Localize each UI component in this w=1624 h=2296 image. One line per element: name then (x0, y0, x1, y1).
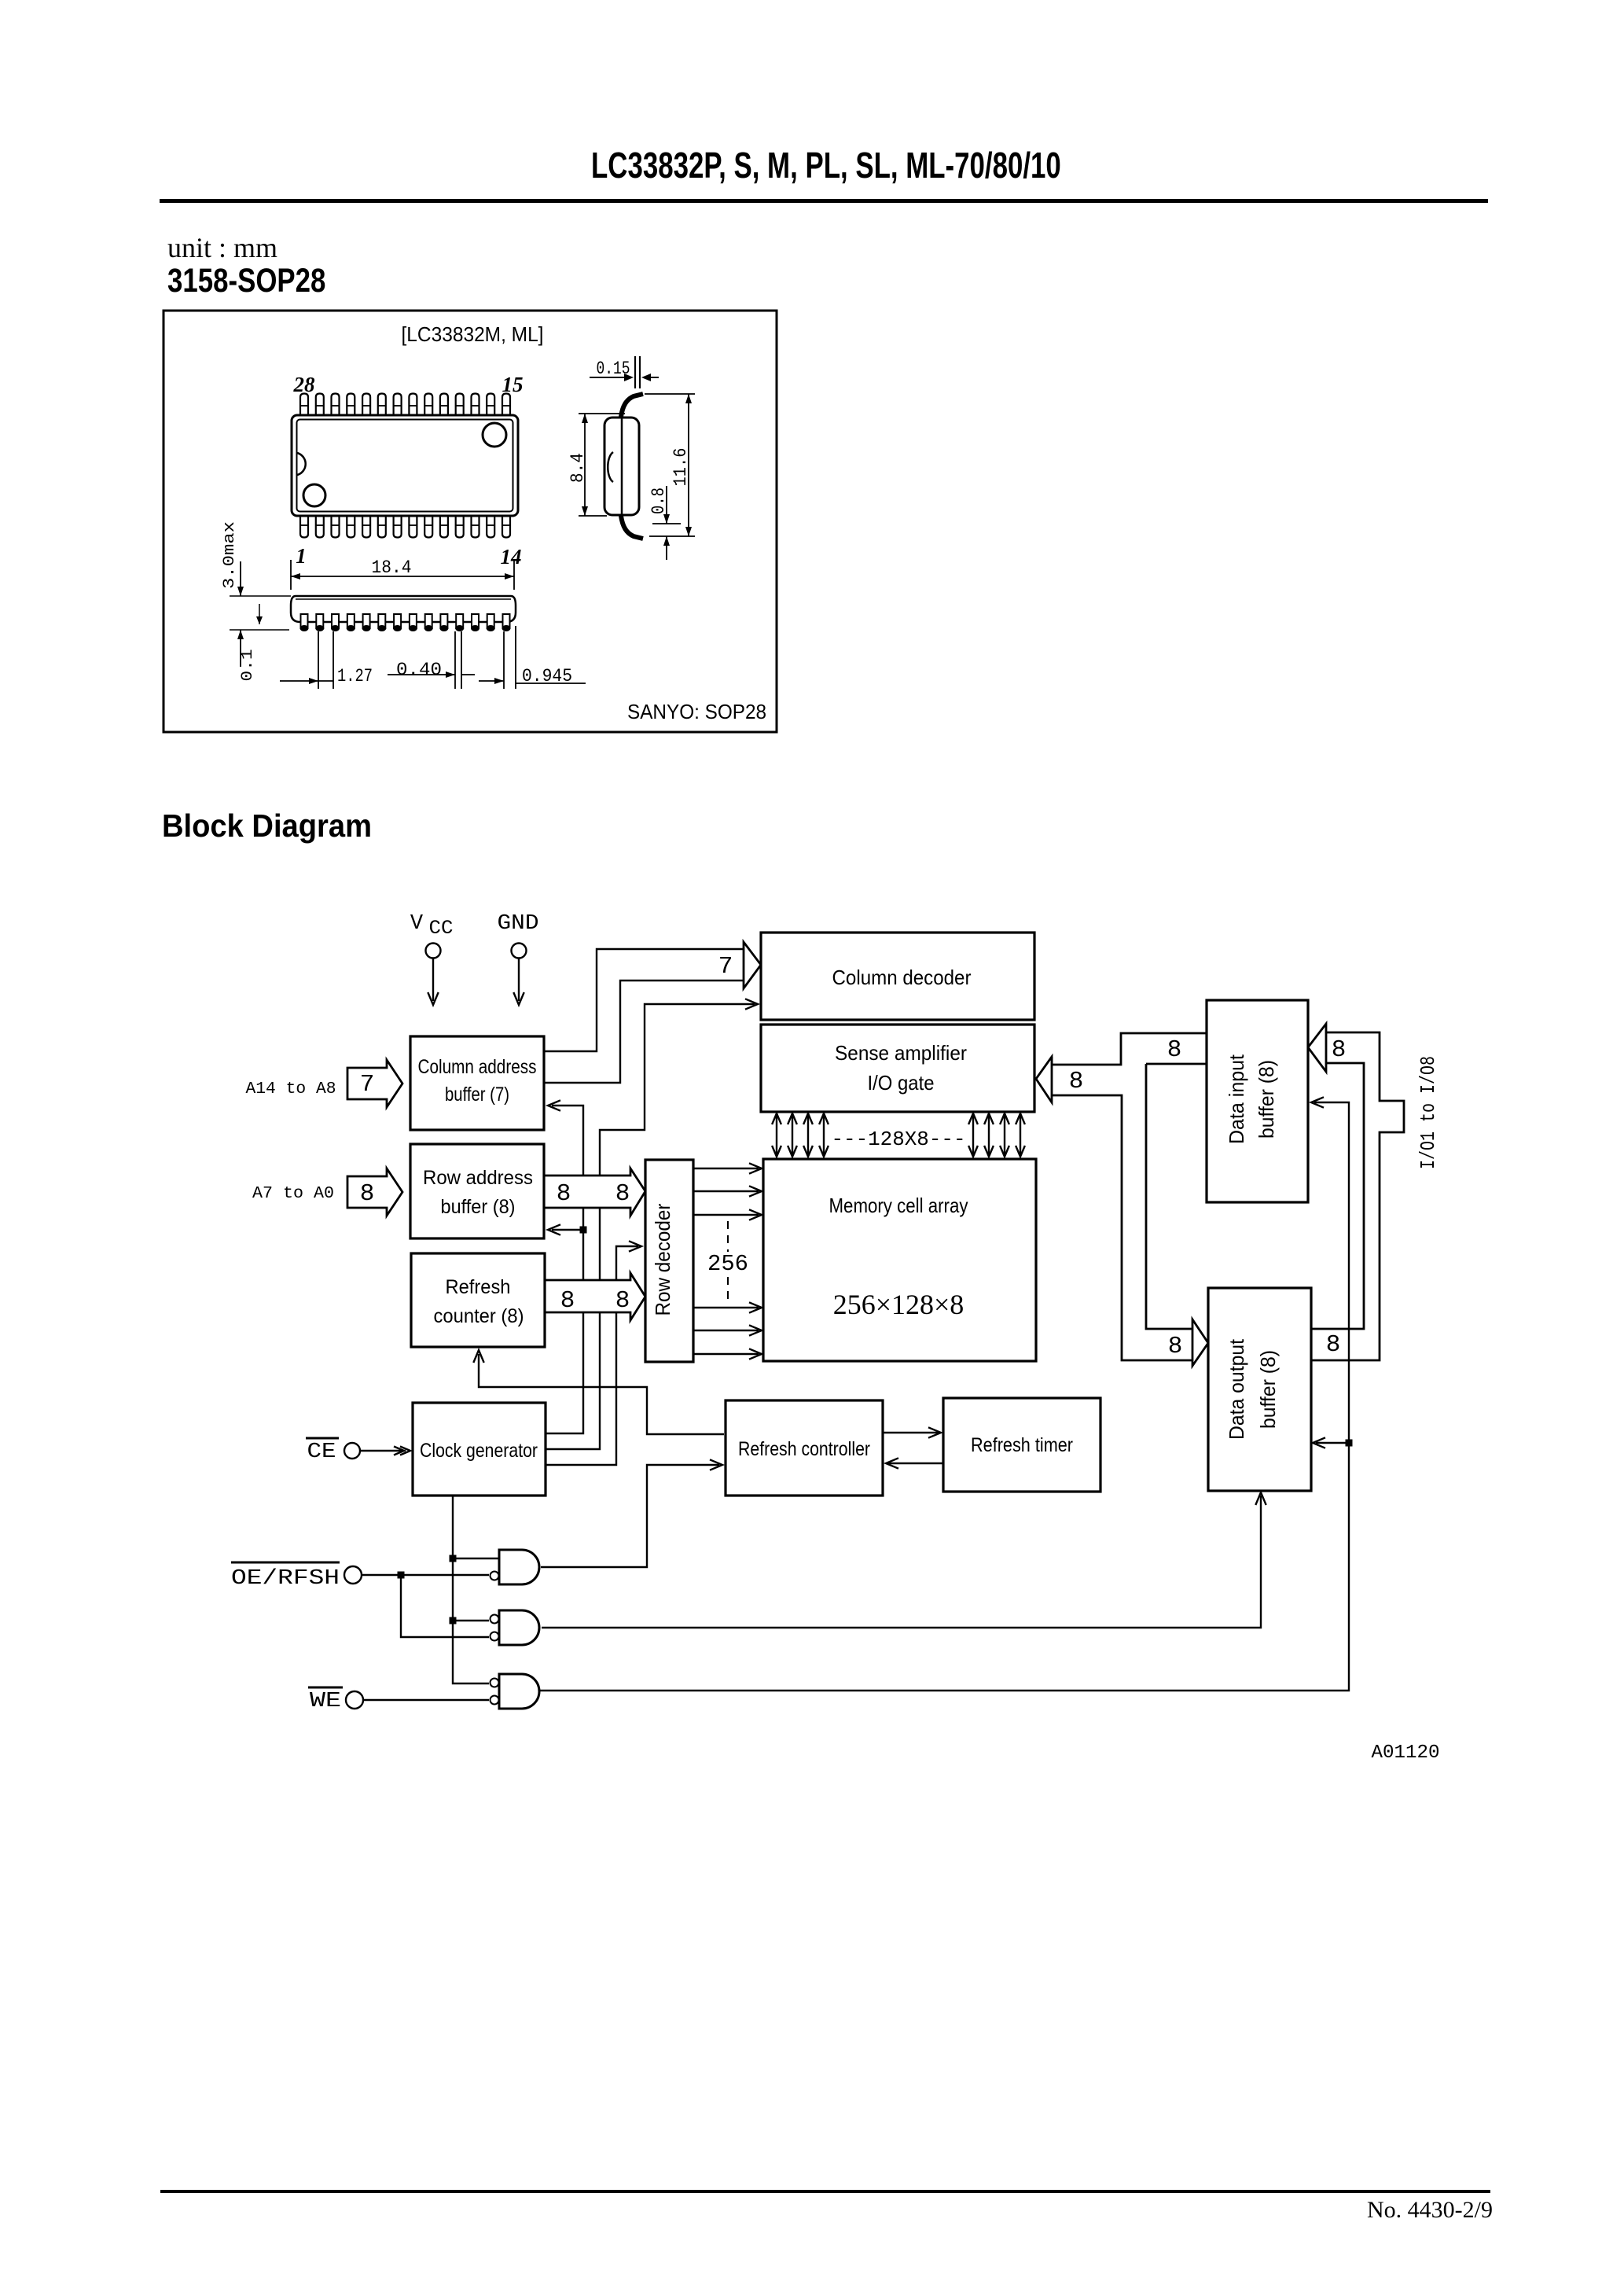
svg-text:8: 8 (1332, 1036, 1347, 1064)
svg-text:8: 8 (1326, 1331, 1341, 1359)
svg-text:14: 14 (501, 545, 522, 568)
svg-text:Refresh: Refresh (446, 1276, 511, 1298)
svg-text:8: 8 (560, 1287, 575, 1315)
svg-text:CE: CE (307, 1441, 336, 1464)
svg-text:11.6: 11.6 (671, 448, 691, 487)
svg-text:256×128×8: 256×128×8 (833, 1289, 964, 1320)
svg-text:buffer (7): buffer (7) (445, 1084, 509, 1106)
svg-text:3.0max: 3.0max (221, 521, 239, 589)
svg-text:8: 8 (615, 1287, 630, 1315)
svg-text:WE: WE (310, 1690, 341, 1713)
svg-text:8: 8 (1167, 1036, 1182, 1064)
svg-text:15: 15 (502, 373, 524, 396)
svg-text:Data input: Data input (1225, 1054, 1248, 1144)
svg-text:18.4: 18.4 (372, 557, 412, 578)
svg-text:8: 8 (1069, 1068, 1084, 1095)
svg-text:Memory cell array: Memory cell array (829, 1194, 968, 1217)
svg-text:---128X8---: ---128X8--- (832, 1128, 966, 1151)
svg-text:Row decoder: Row decoder (651, 1203, 674, 1315)
svg-text:8: 8 (360, 1180, 375, 1208)
svg-text:buffer (8): buffer (8) (1256, 1350, 1280, 1429)
svg-text:I/O gate: I/O gate (868, 1071, 935, 1095)
svg-text:buffer (8): buffer (8) (1255, 1060, 1278, 1139)
svg-text:SANYO: SOP28: SANYO: SOP28 (627, 700, 766, 723)
svg-text:Data output: Data output (1225, 1338, 1248, 1440)
svg-text:OE/RFSH: OE/RFSH (231, 1567, 340, 1591)
svg-text:Column address: Column address (418, 1056, 537, 1078)
svg-text:Clock generator: Clock generator (420, 1440, 538, 1462)
svg-text:0.8: 0.8 (648, 488, 669, 514)
svg-text:[LC33832M, ML]: [LC33832M, ML] (402, 322, 544, 346)
svg-text:buffer (8): buffer (8) (441, 1196, 516, 1218)
svg-text:I/O1 to I/O8: I/O1 to I/O8 (1416, 1056, 1440, 1169)
svg-text:0.1: 0.1 (239, 649, 257, 682)
svg-text:28: 28 (293, 373, 316, 396)
svg-text:GND: GND (498, 912, 539, 936)
svg-text:V: V (410, 912, 424, 936)
svg-text:A14 to A8: A14 to A8 (246, 1080, 336, 1098)
svg-text:7: 7 (718, 953, 733, 981)
svg-text:0.40: 0.40 (396, 660, 442, 680)
svg-text:256: 256 (707, 1251, 748, 1277)
svg-text:Refresh timer: Refresh timer (971, 1434, 1073, 1456)
svg-text:1: 1 (296, 544, 307, 568)
svg-text:8: 8 (557, 1180, 571, 1208)
svg-text:7: 7 (360, 1071, 375, 1098)
svg-text:0.945: 0.945 (522, 666, 572, 686)
svg-text:8: 8 (615, 1180, 630, 1208)
svg-text:Row address: Row address (423, 1167, 533, 1189)
svg-text:CC: CC (429, 917, 454, 940)
svg-text:A7 to A0: A7 to A0 (252, 1185, 334, 1203)
svg-text:Column decoder: Column decoder (832, 966, 972, 989)
svg-text:1.27: 1.27 (337, 666, 373, 686)
svg-text:8.4: 8.4 (568, 453, 588, 483)
svg-text:Sense amplifier: Sense amplifier (835, 1041, 967, 1065)
svg-text:A01120: A01120 (1372, 1742, 1440, 1764)
svg-text:counter (8): counter (8) (434, 1305, 524, 1327)
svg-text:8: 8 (1168, 1333, 1183, 1360)
svg-text:Refresh controller: Refresh controller (738, 1438, 870, 1460)
